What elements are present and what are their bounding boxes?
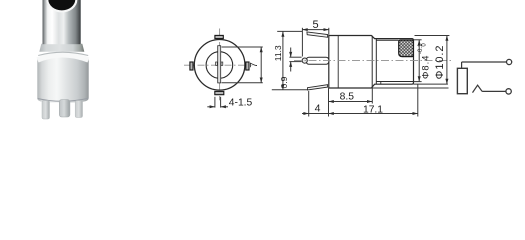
dimension 5 extension lines bbox=[301, 28, 303, 57]
side view: internal flange line 2 bbox=[375, 39, 377, 85]
side view: internal line left bbox=[337, 36, 339, 89]
dimension phi10.2 extension lines bbox=[415, 35, 450, 37]
svg-text:Φ10.2: Φ10.2 bbox=[434, 45, 446, 80]
side view: center pin bead bbox=[302, 58, 307, 63]
svg-text:8.5: 8.5 bbox=[340, 92, 355, 103]
dimension 7 leader lines bbox=[222, 46, 263, 48]
side view: center pin bar bbox=[306, 57, 329, 64]
dimension 4-1.5 extension lines bbox=[214, 97, 216, 108]
schematic: stub wire bbox=[461, 62, 463, 68]
schematic: jack body rectangle bbox=[457, 68, 467, 93]
svg-text:11.3: 11.3 bbox=[273, 45, 283, 61]
svg-text:Φ8.4: Φ8.4 bbox=[420, 55, 430, 79]
dimension phi8.4 line and arrows bbox=[418, 40, 420, 82]
photo: lower body cylinder bbox=[37, 54, 88, 103]
side view: bore top line bbox=[376, 39, 398, 41]
photo: shoulder step bbox=[39, 44, 84, 52]
front view: horizontal centerline bbox=[184, 64, 252, 66]
photo: hole dark ring bbox=[46, 0, 77, 12]
front view: slot right nub bbox=[221, 62, 223, 65]
side view: contact segment bbox=[380, 82, 382, 85]
photo: center blade pin bbox=[59, 100, 70, 118]
svg-text:17.1: 17.1 bbox=[363, 105, 383, 116]
photo: top barrel bbox=[43, 0, 82, 44]
schematic: switch contact bbox=[473, 85, 483, 92]
side view: hatched bushing bbox=[399, 40, 414, 57]
schematic: top terminal circle bbox=[507, 59, 512, 64]
side view: internal flange line bbox=[371, 36, 373, 89]
front view: bottom tab bbox=[215, 91, 224, 94]
svg-text:0.9: 0.9 bbox=[279, 76, 289, 88]
dimension 4 and 17.1 shared line bbox=[302, 113, 418, 115]
front view: left tab bbox=[190, 62, 193, 70]
dimension phi8.4 extension lines bbox=[414, 39, 422, 41]
photo: left leg bbox=[42, 101, 50, 120]
side view: body outline bbox=[329, 36, 414, 89]
dimension 0.9 extension lines bbox=[289, 56, 301, 58]
schematic: top wire bbox=[462, 61, 507, 63]
front view: top tab bbox=[215, 35, 223, 38]
dimension phi10.2 line and arrows bbox=[446, 36, 448, 85]
dimension 8.5 line and arrows bbox=[329, 101, 373, 103]
dimension 7 line and arrows bbox=[260, 47, 262, 83]
photo: shoulder seam line bbox=[38, 52, 88, 55]
front view: right tab bbox=[246, 62, 249, 70]
side view: top blade pin bbox=[307, 32, 328, 37]
svg-text:5: 5 bbox=[313, 19, 319, 31]
photo: right leg bbox=[75, 101, 82, 118]
front view: outer circle bbox=[194, 40, 245, 91]
dimension 5 line and arrows bbox=[302, 29, 328, 31]
photo: body bottom edge bbox=[38, 98, 89, 101]
front view: inner circle bbox=[206, 52, 233, 79]
dimension 11.3 line and arrows bbox=[282, 31, 284, 89]
front view: center slot bar bbox=[218, 46, 221, 83]
svg-text:4: 4 bbox=[315, 102, 321, 114]
photo: black hole bbox=[48, 0, 75, 10]
dimension 8.5 extension line bbox=[371, 88, 373, 103]
side view: centerline bbox=[294, 59, 453, 61]
schematic: bottom wire bbox=[482, 90, 506, 92]
photo: white crescent band bbox=[38, 55, 89, 60]
side view: bore bottom line bbox=[376, 81, 413, 83]
dimension 4-1.5 line and arrows bbox=[207, 106, 215, 108]
photo: barrel rim highlight bbox=[47, 0, 76, 11]
dimension 0.9 line and arrows bbox=[290, 48, 292, 58]
dimension 11.3 extension lines bbox=[277, 30, 302, 32]
side view: bottom blade pin bbox=[308, 85, 328, 90]
schematic: bottom terminal circle bbox=[506, 89, 511, 94]
svg-text:4-1.5: 4-1.5 bbox=[229, 97, 253, 108]
front view: vertical centerline bbox=[219, 29, 221, 101]
svg-text:7: 7 bbox=[249, 62, 260, 68]
front view: slot left nub bbox=[216, 62, 218, 65]
bottom dimension extension lines bbox=[308, 91, 310, 117]
